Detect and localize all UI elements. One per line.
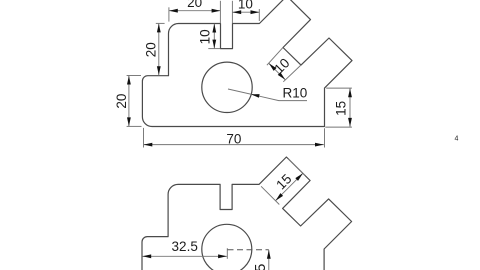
svg-text:R10: R10: [283, 86, 308, 101]
svg-text:20: 20: [114, 94, 129, 109]
svg-text:10: 10: [238, 0, 253, 12]
svg-text:10: 10: [198, 29, 213, 44]
svg-text:70: 70: [226, 131, 241, 146]
svg-text:4: 4: [455, 136, 459, 143]
svg-text:5: 5: [252, 264, 269, 270]
svg-text:20: 20: [143, 42, 158, 57]
svg-text:32.5: 32.5: [172, 239, 198, 254]
svg-text:20: 20: [187, 0, 202, 10]
svg-text:15: 15: [334, 101, 349, 116]
